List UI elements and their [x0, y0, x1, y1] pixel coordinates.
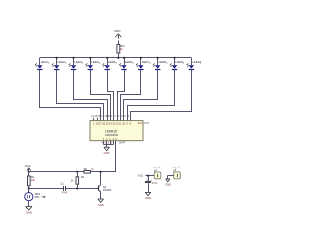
svg-text:Key = A: Key = A: [153, 166, 161, 169]
svg-text:MIC: MIC: [35, 196, 40, 199]
svg-text:GND: GND: [145, 196, 151, 200]
svg-text:VDD: VDD: [114, 29, 121, 33]
svg-text:BATT: BATT: [119, 141, 126, 144]
svg-text:10: 10: [122, 122, 125, 126]
svg-text:LED10: LED10: [192, 60, 201, 64]
svg-text:LED5: LED5: [108, 60, 116, 64]
svg-text:C1: C1: [60, 182, 64, 186]
svg-text:LED6: LED6: [125, 60, 133, 64]
svg-text:LED2: LED2: [58, 60, 66, 64]
svg-text:OUT: OUT: [144, 121, 150, 125]
svg-text:47uF: 47uF: [62, 192, 68, 195]
svg-text:LED4: LED4: [91, 60, 99, 64]
svg-text:V(1): V(1): [138, 174, 143, 178]
svg-text:VCC: VCC: [25, 164, 31, 168]
svg-text:LED8: LED8: [159, 60, 167, 64]
svg-text:GND: GND: [165, 182, 171, 186]
svg-text:10k: 10k: [31, 178, 36, 182]
svg-text:LM3915N: LM3915N: [105, 133, 118, 137]
svg-text:SIG: SIG: [138, 122, 142, 125]
svg-text:47uF: 47uF: [152, 182, 158, 185]
svg-text:LED7: LED7: [142, 60, 150, 64]
svg-text:GND: GND: [104, 151, 110, 155]
svg-text:LED3: LED3: [74, 60, 82, 64]
svg-text:LED9: LED9: [175, 60, 183, 64]
svg-text:2N3904: 2N3904: [103, 189, 112, 192]
svg-text:GND: GND: [26, 210, 32, 214]
svg-text:GND: GND: [98, 203, 104, 207]
svg-text:LED1: LED1: [41, 60, 49, 64]
svg-text:Key = B: Key = B: [173, 167, 181, 169]
